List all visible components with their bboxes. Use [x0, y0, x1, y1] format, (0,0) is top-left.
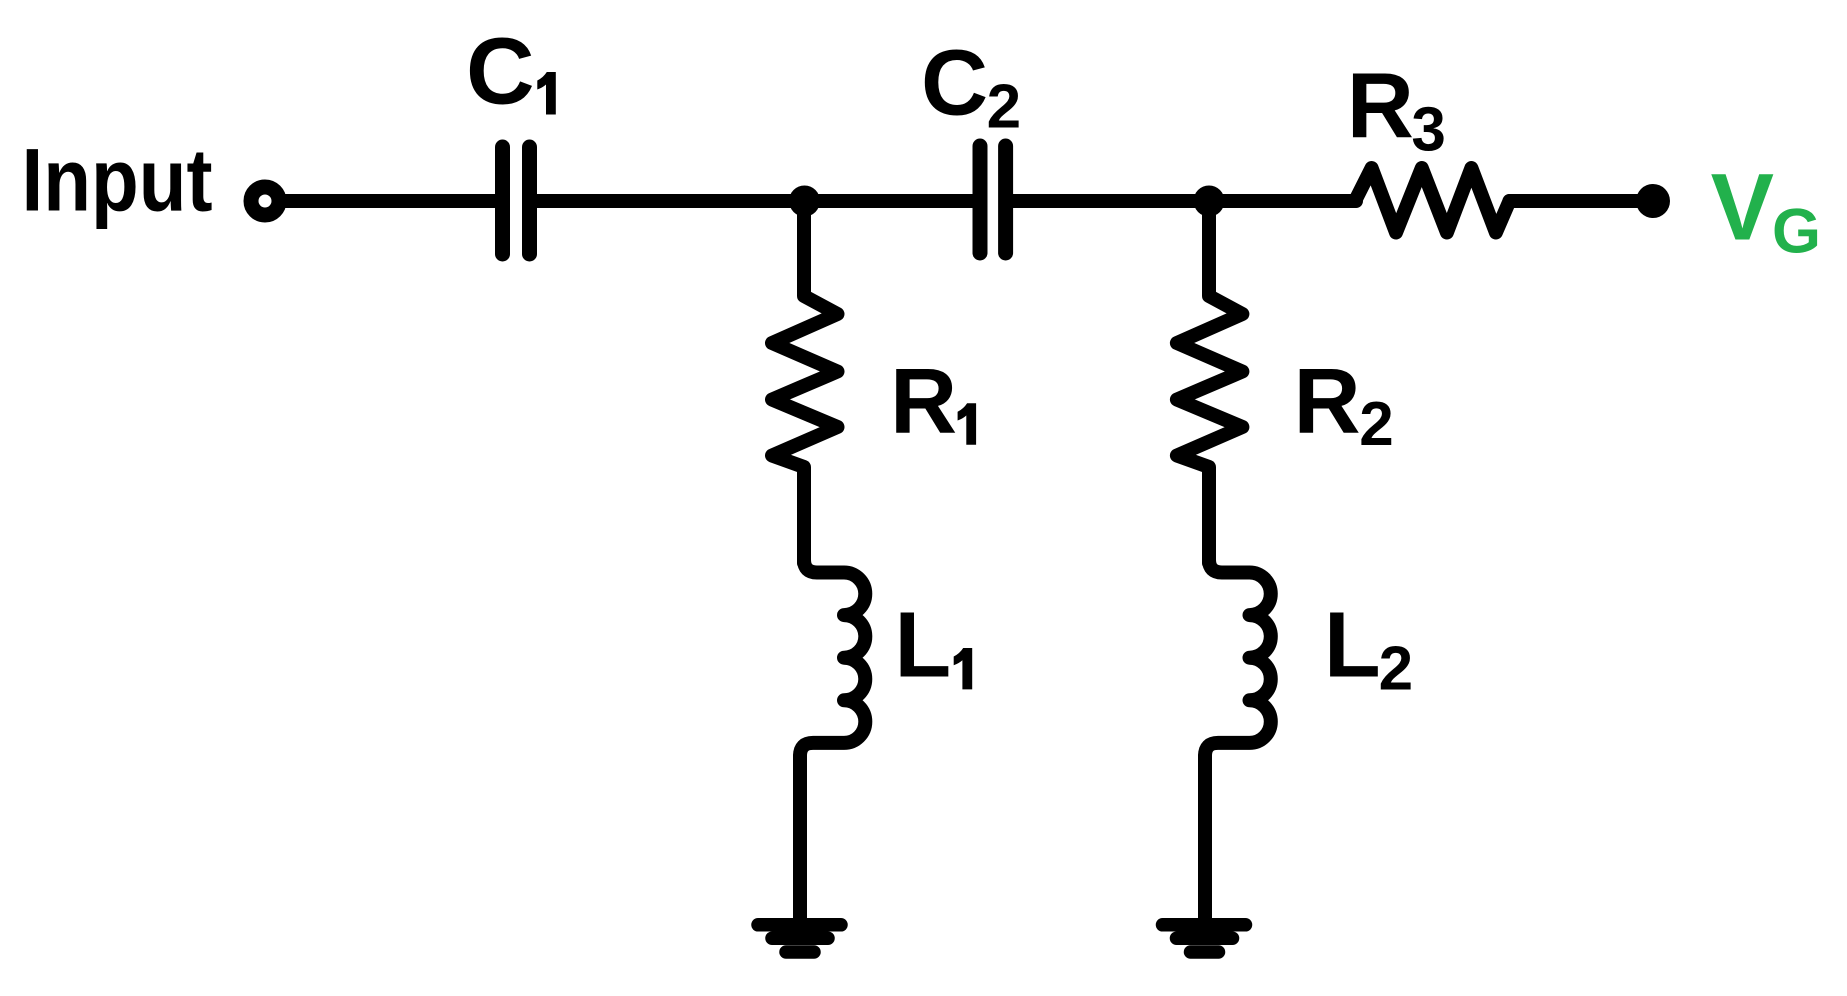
- wire R3 to output terminal: [1510, 194, 1649, 208]
- wire node B down, resistor R2, wire to L2: [1177, 201, 1243, 563]
- wire C2 to R3: [1013, 194, 1356, 208]
- svg-text:V: V: [1711, 155, 1774, 261]
- svg-text:R: R: [1294, 349, 1361, 453]
- svg-text:C: C: [466, 19, 535, 125]
- input terminal (open circle): [251, 187, 279, 215]
- svg-text:R: R: [1347, 53, 1414, 157]
- resistor R3: [1355, 168, 1510, 233]
- wire L1 to ground: [793, 756, 807, 922]
- capacitor C1: [503, 147, 530, 254]
- label C2: [921, 31, 1021, 142]
- svg-text:2: 2: [1359, 390, 1393, 459]
- wire node A down, resistor R1, wire to L1: [772, 201, 838, 563]
- ground 2: [1163, 925, 1246, 952]
- node A junction dot: [789, 186, 820, 217]
- label VG (green): [1711, 155, 1821, 267]
- label C1: [466, 19, 556, 125]
- label L2: [1324, 593, 1413, 704]
- ground 1: [758, 925, 841, 952]
- node B junction dot: [1194, 186, 1225, 217]
- wire L2 to ground: [1198, 756, 1212, 922]
- svg-text:2: 2: [987, 73, 1021, 142]
- svg-text:G: G: [1772, 197, 1821, 267]
- wire C1 to C2 (through node A): [536, 194, 974, 208]
- label R3: [1347, 53, 1446, 164]
- svg-text:R: R: [890, 349, 957, 453]
- svg-text:Input: Input: [22, 130, 213, 230]
- wire input to C1: [284, 194, 496, 208]
- svg-text:C: C: [921, 31, 988, 135]
- output terminal dot: [1636, 184, 1670, 218]
- svg-text:3: 3: [1411, 96, 1445, 165]
- svg-text:L: L: [1324, 593, 1381, 697]
- label R1: [890, 349, 976, 453]
- inductor L1: [800, 556, 865, 762]
- svg-text:2: 2: [1379, 634, 1413, 703]
- capacitor C2: [980, 146, 1006, 253]
- label L1: [894, 593, 972, 697]
- svg-text:L: L: [894, 593, 951, 697]
- inductor L2: [1205, 556, 1271, 762]
- label R2: [1294, 349, 1394, 459]
